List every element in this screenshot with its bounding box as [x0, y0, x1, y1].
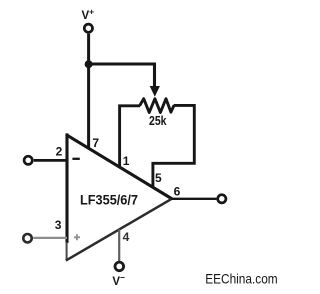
svg-text:1: 1	[123, 154, 130, 168]
non-inverting input marker + (faded)	[74, 234, 80, 240]
wire IN- terminal to pin 2	[34, 159, 67, 162]
wire IN+ terminal to pin 3 (faded)	[33, 237, 67, 239]
svg-text:25k: 25k	[149, 114, 167, 128]
terminal V-	[115, 262, 124, 271]
op-amp U1 left edge	[65, 133, 68, 243]
svg-text:6: 6	[174, 184, 181, 198]
op-amp U1 top edge	[66, 135, 172, 199]
wire junction to potentiometer wiper	[89, 64, 155, 87]
inverting input marker -	[72, 158, 79, 160]
junction node V+ / wiper	[85, 60, 93, 68]
svg-text:7: 7	[92, 136, 99, 150]
wire V+ down to pin 7	[87, 34, 90, 149]
terminal IN- pin 2	[24, 156, 32, 164]
wire pin 6 output	[171, 198, 216, 200]
svg-text:2: 2	[56, 145, 63, 159]
wiper arrowhead	[150, 86, 160, 97]
potentiometer R1 25k body	[140, 99, 174, 113]
wire pot left end to pin 1	[120, 106, 140, 166]
terminal OUT pin 6	[218, 195, 226, 203]
wire pot right end to pin 5	[153, 105, 194, 186]
svg-text:EEChina.com: EEChina.com	[205, 271, 278, 287]
terminal V+	[84, 24, 92, 32]
svg-text:LF355/6/7: LF355/6/7	[80, 192, 138, 208]
svg-text:5: 5	[155, 171, 162, 185]
wire pin 4 to V- terminal (faded)	[118, 229, 120, 261]
terminal IN+ pin 3	[23, 234, 31, 242]
svg-text:4: 4	[123, 230, 130, 244]
svg-text:V−: V−	[112, 273, 125, 289]
svg-text:3: 3	[55, 218, 62, 232]
op-amp U1 left edge lower faded part	[66, 242, 68, 260]
op-amp U1 bottom edge	[66, 199, 172, 261]
svg-text:V+: V+	[82, 6, 95, 22]
